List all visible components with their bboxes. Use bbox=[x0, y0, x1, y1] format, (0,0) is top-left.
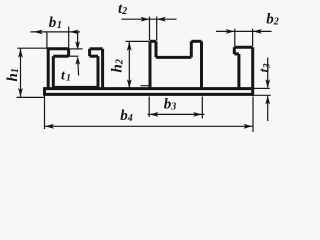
dim b4 left extension bbox=[44, 94, 46, 129]
box B1 ceiling right bbox=[90, 55, 98, 58]
dim t1 top face extension bbox=[69, 48, 83, 50]
dim t3 upper shaft bbox=[267, 58, 269, 88]
box B1 inner right wall bbox=[97, 56, 100, 88]
dim b4 right extension bbox=[252, 97, 254, 133]
dim b1 line bbox=[31, 31, 81, 33]
mid upstand top face left bbox=[150, 40, 156, 43]
right upstand head top bbox=[234, 46, 252, 49]
dim t3 lower shaft bbox=[267, 96, 269, 121]
arrow t3 lower (points up) bbox=[265, 96, 270, 105]
small step at mid upstand foot bbox=[141, 85, 151, 87]
box B1 top-left lip bbox=[47, 47, 69, 50]
arrow h2 bottom (points down) bbox=[127, 79, 132, 88]
arrow t2 right (points left) bbox=[157, 17, 166, 22]
arrow b1 left (points left) bbox=[34, 30, 43, 35]
dim h1 line bbox=[20, 48, 22, 97]
dim t1 ceiling extension bbox=[69, 55, 79, 57]
profile right edge bbox=[251, 47, 254, 96]
dim b1 right extension bbox=[68, 27, 70, 49]
dim b3 line bbox=[148, 113, 205, 115]
dim b3 left extension bbox=[148, 97, 150, 118]
box B1 left wall bbox=[47, 49, 50, 89]
mid upstand U floor bbox=[156, 56, 191, 59]
box B1 inner left wall bbox=[52, 56, 55, 88]
arrow b2 right (points left) bbox=[253, 29, 262, 34]
dim t3 bottom extension bbox=[254, 94, 271, 96]
dim t2 left extension bbox=[149, 17, 151, 41]
arrow h2 top (points up) bbox=[127, 42, 132, 51]
mid upstand outer right wall bbox=[200, 41, 203, 88]
base plate top bbox=[45, 87, 254, 90]
mid upstand outer left wall bbox=[149, 41, 152, 88]
dim b1 left extension bbox=[46, 32, 48, 48]
box B1 top-right lip bbox=[90, 47, 103, 50]
dim t2 line bbox=[122, 18, 177, 20]
arrow h1 top (points up) bbox=[18, 49, 23, 58]
right upstand head underside bbox=[234, 52, 239, 55]
box B1 slot right edge bbox=[88, 49, 91, 56]
dim h2 line bbox=[128, 42, 130, 89]
mid upstand top face right bbox=[191, 40, 201, 43]
dim t1 upper shaft bbox=[77, 32, 79, 43]
arrow t1 lower (points up) bbox=[75, 56, 80, 64]
dim t3 top extension bbox=[254, 87, 270, 89]
arrow t3 upper (points down) bbox=[265, 79, 270, 88]
arrow t2 left (points right) bbox=[141, 17, 150, 22]
arrow b2 left (points right) bbox=[226, 29, 235, 34]
arrow b4 left (points left) bbox=[45, 124, 54, 129]
box B1 cavity floor bbox=[53, 86, 98, 88]
dim h1 top extension bbox=[17, 47, 47, 49]
dim h2 top extension bbox=[126, 40, 150, 42]
mid upstand inner right wall bbox=[190, 41, 193, 57]
arrow b3 right (points right) bbox=[193, 112, 202, 117]
box B1 lip edge bbox=[67, 49, 70, 56]
arrow t1 upper (points down) bbox=[75, 41, 80, 50]
arrow b3 left (points left) bbox=[149, 112, 158, 117]
dim t2 right extension bbox=[156, 17, 158, 41]
mid upstand inner left wall bbox=[155, 41, 158, 57]
arrow b4 right (points right) bbox=[244, 124, 253, 129]
dim b2 left extension bbox=[234, 29, 236, 47]
arrow b1 right (points left) bbox=[70, 30, 79, 35]
dim b3 right extension bbox=[201, 97, 203, 119]
arrow h1 bottom (points down) bbox=[18, 88, 23, 97]
base plate bottom bbox=[45, 93, 254, 96]
dim b2 line bbox=[216, 30, 272, 32]
box B1 outer right wall bbox=[101, 49, 104, 89]
box B1 ceiling left bbox=[53, 55, 68, 58]
right upstand stem left wall bbox=[237, 54, 240, 89]
dim h1 bottom extension bbox=[17, 96, 46, 98]
right upstand head left edge bbox=[233, 47, 236, 54]
base left edge bbox=[43, 87, 46, 95]
dim b2 right extension bbox=[252, 29, 254, 46]
dim b4 line bbox=[45, 125, 254, 127]
dim t1 lower shaft bbox=[77, 62, 80, 76]
